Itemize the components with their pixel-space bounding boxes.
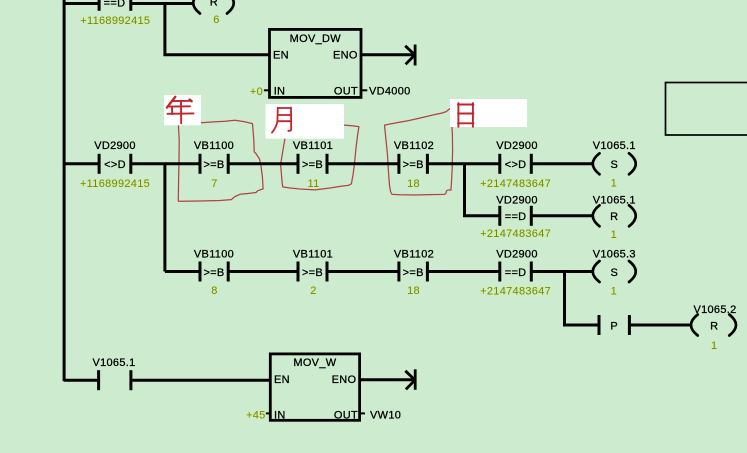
- svg-text:OUT: OUT: [334, 86, 358, 98]
- svg-text:R: R: [610, 211, 618, 223]
- svg-text:VD2900: VD2900: [496, 140, 538, 152]
- svg-text:S: S: [610, 159, 618, 171]
- svg-text:OUT: OUT: [334, 409, 358, 421]
- svg-text:VB1100: VB1100: [194, 249, 234, 261]
- svg-text:+1168992415: +1168992415: [80, 15, 150, 27]
- svg-text:VB1102: VB1102: [394, 140, 434, 152]
- svg-text:2: 2: [310, 285, 316, 297]
- svg-text:+2147483647: +2147483647: [480, 178, 551, 190]
- svg-text:8: 8: [211, 285, 217, 297]
- svg-text:1: 1: [611, 229, 617, 241]
- svg-text:IN: IN: [274, 409, 286, 421]
- svg-text:VB1101: VB1101: [293, 140, 333, 152]
- svg-text:ENO: ENO: [333, 50, 358, 62]
- svg-text:+0: +0: [250, 86, 263, 98]
- svg-text:VB1102: VB1102: [394, 249, 434, 261]
- svg-text:VW10: VW10: [370, 409, 401, 421]
- svg-text:ENO: ENO: [332, 374, 357, 386]
- svg-text:V1065.3: V1065.3: [593, 249, 636, 261]
- svg-text:V1065.1: V1065.1: [593, 140, 636, 152]
- svg-text:>=B: >=B: [403, 159, 424, 171]
- svg-text:1: 1: [711, 340, 717, 352]
- svg-text:R: R: [710, 321, 718, 333]
- svg-text:+2147483647: +2147483647: [480, 286, 551, 298]
- svg-text:<>D: <>D: [505, 159, 527, 171]
- svg-text:>=B: >=B: [203, 267, 224, 279]
- svg-text:V1065.1: V1065.1: [593, 194, 636, 206]
- svg-text:S: S: [610, 267, 618, 279]
- svg-text:EN: EN: [273, 50, 289, 62]
- svg-text:>=B: >=B: [203, 159, 224, 171]
- svg-text:1: 1: [611, 286, 617, 298]
- svg-text:VB1101: VB1101: [293, 249, 333, 261]
- svg-text:+2147483647: +2147483647: [480, 228, 551, 240]
- svg-text:V1065.2: V1065.2: [693, 304, 736, 316]
- svg-text:MOV_W: MOV_W: [293, 357, 336, 369]
- svg-text:11: 11: [307, 178, 319, 190]
- svg-text:IN: IN: [274, 86, 286, 98]
- svg-text:7: 7: [211, 178, 217, 190]
- svg-text:>=B: >=B: [302, 159, 323, 171]
- svg-text:==D: ==D: [505, 211, 527, 223]
- svg-text:18: 18: [407, 285, 420, 297]
- svg-text:R: R: [210, 0, 218, 9]
- svg-text:>=B: >=B: [403, 267, 424, 279]
- svg-text:==D: ==D: [505, 267, 527, 279]
- svg-text:VD2900: VD2900: [94, 140, 136, 152]
- svg-text:V1065.1: V1065.1: [92, 357, 135, 369]
- svg-text:1: 1: [611, 177, 617, 189]
- svg-text:18: 18: [407, 178, 420, 190]
- svg-text:P: P: [610, 321, 618, 333]
- svg-text:VB1100: VB1100: [194, 140, 234, 152]
- svg-text:+45: +45: [246, 409, 266, 421]
- svg-text:EN: EN: [274, 374, 290, 386]
- svg-text:VD2900: VD2900: [496, 249, 538, 261]
- svg-text:+1168992415: +1168992415: [80, 178, 150, 190]
- svg-text:6: 6: [213, 14, 219, 26]
- svg-text:<>D: <>D: [104, 159, 126, 171]
- svg-text:>=B: >=B: [302, 267, 323, 279]
- svg-text:MOV_DW: MOV_DW: [290, 33, 342, 45]
- svg-text:==D: ==D: [104, 0, 126, 10]
- svg-text:VD2900: VD2900: [496, 194, 538, 206]
- svg-text:VD4000: VD4000: [369, 86, 411, 98]
